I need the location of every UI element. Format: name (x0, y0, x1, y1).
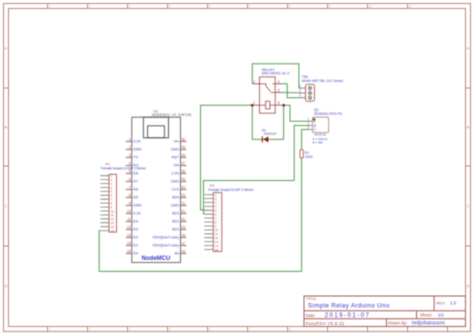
svg-text:10: 10 (127, 209, 131, 213)
svg-text:RSV(Don't Use): RSV(Don't Use) (153, 244, 179, 248)
svg-text:8: 8 (129, 193, 131, 197)
svg-text:tedjohansson: tedjohansson (412, 321, 445, 327)
svg-text:Female header1X15P 2.54mm: Female header1X15P 2.54mm (101, 166, 146, 170)
svg-text:D4: D4 (133, 220, 138, 224)
connector P2 female header 1X15P (204, 184, 253, 252)
svg-text:3.3V: 3.3V (133, 212, 141, 216)
relay RELAY1 SRD-05VDC-SL-C (252, 68, 290, 113)
svg-text:2N3904G-RTK-PS: 2N3904G-RTK-PS (314, 112, 343, 116)
wire Q1 base to P2 pin6 (204, 126, 310, 214)
svg-text:EasyEDA V5.8.22: EasyEDA V5.8.22 (306, 321, 345, 326)
svg-text:SRD-05VDC-SL-C: SRD-05VDC-SL-C (262, 72, 291, 76)
svg-text:20: 20 (182, 217, 186, 221)
svg-text:NodeMCU: NodeMCU (142, 256, 171, 262)
svg-text:3.3V: 3.3V (133, 140, 141, 144)
svg-text:28: 28 (182, 153, 186, 157)
svg-text:27: 27 (182, 161, 186, 165)
svg-text:1: 1 (299, 84, 301, 88)
terminal block TB1 (299, 75, 343, 101)
U1 right pin stubs (181, 141, 187, 253)
svg-text:SD1: SD1 (172, 212, 179, 216)
svg-text:14: 14 (127, 241, 131, 245)
svg-text:Vin: Vin (174, 140, 179, 144)
svg-text:D1: D1 (133, 244, 138, 248)
svg-text:1: 1 (253, 101, 255, 105)
wire D1 flyback loop across relay coil (252, 105, 283, 139)
svg-text:17: 17 (182, 241, 186, 245)
svg-text:13: 13 (127, 233, 131, 237)
svg-text:D: D (5, 284, 8, 289)
svg-text:3: 3 (307, 126, 309, 130)
svg-text:23: 23 (182, 193, 186, 197)
U1 left pin names (133, 140, 142, 256)
svg-text:24: 24 (182, 185, 186, 189)
wire relay pin5 to TB1 pin2 (282, 91, 302, 94)
svg-text:NODEMCU_V1_ESP12E: NODEMCU_V1_ESP12E (152, 113, 192, 117)
svg-text:11: 11 (409, 4, 412, 8)
relay pin stubs (252, 84, 282, 105)
svg-text:2: 2 (129, 145, 131, 149)
wire R1 bottom to P1 pin15 ground rail (99, 157, 301, 271)
U1 left pin numbers (127, 137, 131, 253)
svg-text:12: 12 (127, 225, 131, 229)
svg-text:15: 15 (215, 248, 219, 252)
svg-text:D2: D2 (133, 236, 138, 240)
svg-text:TITLE:: TITLE: (306, 297, 317, 301)
svg-text:D5: D5 (133, 196, 138, 200)
svg-text:SD3: SD3 (172, 228, 179, 232)
svg-text:3: 3 (129, 153, 131, 157)
U1 left pin stubs (126, 141, 132, 253)
svg-text:GND: GND (133, 148, 142, 152)
svg-text:C: C (467, 204, 470, 209)
svg-text:D8: D8 (133, 172, 138, 176)
svg-text:EN: EN (174, 164, 179, 168)
svg-text:2019-01-07: 2019-01-07 (325, 313, 371, 319)
svg-text:GND: GND (133, 204, 142, 208)
svg-text:15: 15 (127, 249, 131, 253)
svg-text:D3: D3 (133, 228, 138, 232)
svg-text:B: B (467, 125, 470, 130)
wire relay pin8 to Q1 emitter (284, 105, 310, 121)
resistor R1 100ohm (300, 150, 313, 160)
svg-text:6: 6 (129, 177, 131, 181)
svg-text:REV:: REV: (436, 300, 445, 305)
svg-text:7: 7 (129, 185, 131, 189)
svg-text:100Ω: 100Ω (305, 155, 313, 159)
svg-text:3: 3 (299, 94, 301, 98)
relay pin numbers (253, 80, 280, 105)
svg-text:4: 4 (278, 80, 280, 84)
svg-text:D7: D7 (133, 180, 138, 184)
wire relay pin1 to P2 pin5 (201, 105, 253, 210)
title block (304, 296, 466, 327)
relay switch contacts (260, 84, 276, 93)
U1 right pin numbers (182, 137, 186, 253)
IC U1 NODEMCU_V1_ESP12E (126, 109, 192, 262)
svg-text:D: D (467, 284, 470, 289)
svg-text:15: 15 (111, 229, 115, 233)
svg-text:CLK: CLK (172, 188, 180, 192)
svg-text:5: 5 (278, 88, 280, 92)
svg-text:A: A (5, 46, 8, 51)
svg-text:22: 22 (182, 201, 186, 205)
svg-text:SD0: SD0 (172, 196, 179, 200)
svg-text:3.3V: 3.3V (171, 172, 179, 176)
svg-text:Female header1X15P 2.54mm: Female header1X15P 2.54mm (208, 188, 253, 192)
svg-text:2: 2 (299, 89, 301, 93)
svg-text:18: 18 (182, 233, 186, 237)
svg-text:1N4001F: 1N4001F (264, 132, 277, 136)
ESP12E module outline (143, 117, 168, 138)
svg-text:Simple Relay Arduino Uno: Simple Relay Arduino Uno (308, 303, 390, 310)
svg-text:D0: D0 (133, 252, 138, 256)
svg-text:GND: GND (171, 148, 180, 152)
svg-text:26: 26 (182, 169, 186, 173)
svg-text:4: 4 (129, 161, 131, 165)
svg-text:A: A (467, 46, 470, 51)
svg-text:Wurth WR-TBL 101 Series: Wurth WR-TBL 101 Series (302, 79, 343, 83)
svg-text:21: 21 (182, 209, 186, 213)
svg-text:25: 25 (182, 177, 186, 181)
svg-text:RST: RST (172, 156, 180, 160)
svg-text:RSV(Don't Use): RSV(Don't Use) (153, 236, 179, 240)
svg-text:29: 29 (182, 145, 186, 149)
wire relay pin4 to TB1 pin3 (282, 84, 302, 98)
Q1 emitter arrow (313, 118, 316, 121)
svg-text:CMD: CMD (171, 204, 180, 208)
svg-text:1.0: 1.0 (450, 301, 457, 306)
diode D1 1N4001F (262, 129, 277, 143)
U1 right pin names (153, 140, 180, 256)
svg-text:SD2: SD2 (172, 220, 179, 224)
junction node at relay pin8 (282, 104, 285, 107)
svg-text:TX: TX (133, 156, 138, 160)
svg-text:Date:: Date: (306, 313, 316, 318)
svg-text:19: 19 (182, 225, 186, 229)
svg-text:10: 10 (369, 4, 373, 8)
svg-text:9: 9 (129, 201, 131, 205)
svg-text:30: 30 (182, 137, 186, 141)
svg-text:11: 11 (127, 217, 131, 221)
svg-text:Drawn By:: Drawn By: (388, 320, 407, 325)
relay coil (260, 104, 276, 106)
svg-text:D6: D6 (133, 188, 138, 192)
wire Q1 collector to R1 top (302, 130, 310, 150)
transistor Q1 2N3904G-RTK-PS (307, 108, 342, 144)
svg-text:16: 16 (182, 249, 186, 253)
junction node at relay pin1 (251, 104, 254, 107)
svg-text:B: B (5, 125, 8, 130)
svg-text:2: 2 (253, 80, 255, 84)
svg-text:C: C (5, 204, 8, 209)
wire relay pin2 to TB1 pin1 (252, 64, 302, 88)
connector P1 female header 1X15P (100, 163, 146, 233)
svg-text:1: 1 (129, 137, 131, 141)
screw terminal 1 (308, 86, 312, 99)
svg-text:Sheet:: Sheet: (420, 312, 432, 317)
svg-text:B = 300: B = 300 (313, 141, 323, 145)
svg-text:1/1: 1/1 (438, 312, 445, 317)
svg-text:GND: GND (171, 180, 180, 184)
svg-text:8: 8 (278, 101, 280, 105)
svg-text:A0: A0 (174, 252, 179, 256)
